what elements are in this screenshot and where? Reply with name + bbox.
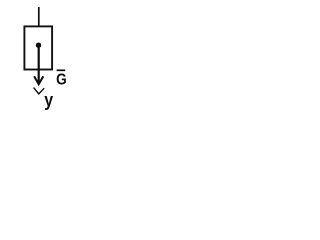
wire (overbar of G) <box>57 69 66 71</box>
wire (string from support to block) <box>38 7 40 27</box>
svg-text:G: G <box>56 72 67 89</box>
block (hanging body) <box>24 26 52 69</box>
node (center of mass dot) <box>36 43 41 48</box>
wire (vector G shaft) <box>38 45 40 84</box>
node y-axis chevron arrowhead <box>34 88 45 94</box>
svg-text:y: y <box>44 90 53 110</box>
background <box>0 0 93 113</box>
vector G arrowhead <box>34 76 43 84</box>
